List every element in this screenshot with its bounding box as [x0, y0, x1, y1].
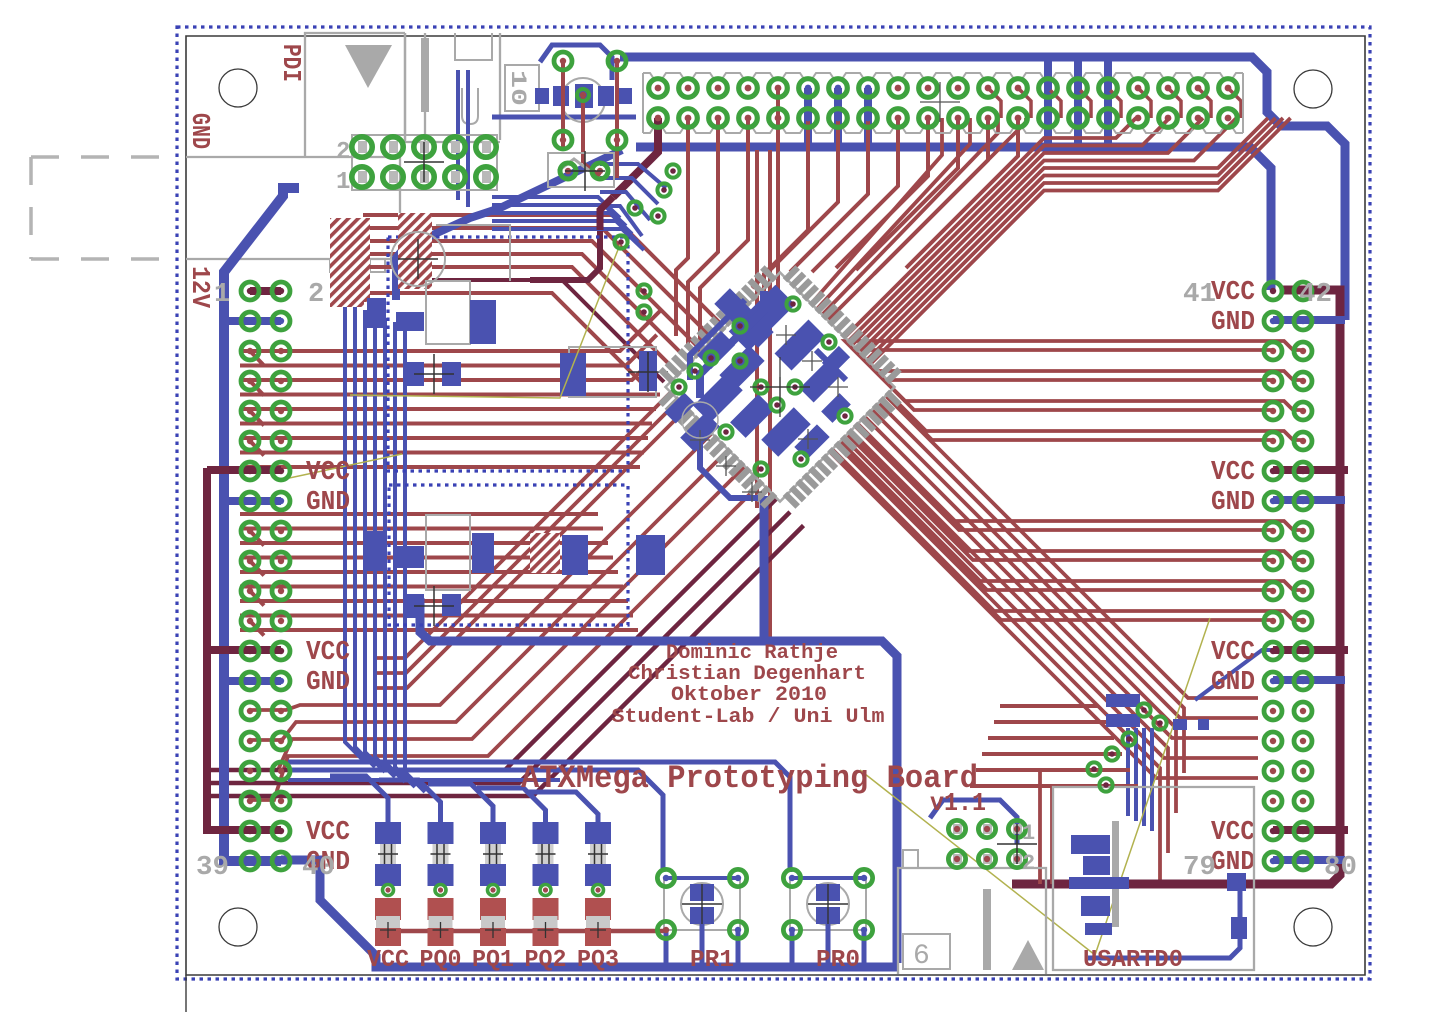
- section2 outline: [426, 515, 470, 590]
- crosshair IC1: [414, 354, 454, 394]
- wire: blue horizontal osc: [492, 115, 636, 120]
- wire: blue GND stubs right: [1273, 316, 1345, 324]
- wire bundle: left horizontals group A: [240, 310, 661, 351]
- jack feet: [330, 259, 385, 272]
- wire: button S1 PR1 links: [666, 876, 738, 880]
- svg-text:PQ1: PQ1: [472, 947, 514, 974]
- svg-text:GND: GND: [1211, 668, 1255, 698]
- X3 inner bar: [983, 889, 991, 970]
- svg-text:USARTD0: USARTD0: [1083, 947, 1183, 974]
- wire: blue verticals from USB: [456, 70, 460, 200]
- wire: red bus under LEDs: [388, 929, 664, 934]
- svg-text:GND: GND: [306, 488, 350, 518]
- IC1 pads blue: [367, 298, 386, 328]
- svg-text:40: 40: [302, 853, 335, 883]
- airwire yellow 2: [280, 454, 402, 480]
- wire: blue route JP2: [930, 800, 1017, 844]
- crosshair JP2: [997, 824, 1037, 864]
- USB connector X3 outline: [898, 868, 1046, 974]
- crosshair jumper: [565, 151, 605, 191]
- button S2 PR0 contacts: [816, 884, 840, 901]
- wire bundle: left pad jogs group A: [250, 351, 264, 366]
- wire bundle: NW horizontals becoming diagonals to chip: [363, 215, 722, 325]
- LED LED1: [375, 898, 401, 920]
- wire: blue mid lines to buttons area: [288, 762, 790, 872]
- X3 tab: [903, 850, 918, 868]
- wire: crystal stubs red: [561, 61, 565, 150]
- svg-text:2: 2: [336, 139, 350, 166]
- svg-text:VCC: VCC: [1211, 458, 1255, 488]
- svg-text:79: 79: [1183, 853, 1216, 883]
- button S1 PR1 cap: [681, 883, 723, 925]
- svg-text:Dominic Rathje: Dominic Rathje: [666, 642, 838, 665]
- svg-text:VCC: VCC: [306, 638, 350, 668]
- pin header SV1 pads: [649, 79, 668, 98]
- wire bundle: NE arm inner diagonals: [827, 118, 1026, 321]
- button S1 PR1 pads: [657, 869, 674, 886]
- wire: blue USARTD0 trace: [1088, 890, 1240, 958]
- LED LED3: [480, 898, 506, 920]
- microcontroller U1 outline: [665, 272, 894, 501]
- USB connector X2 silkscreen: [405, 33, 500, 142]
- svg-text:GND: GND: [1211, 488, 1255, 518]
- X4 inner bar: [1112, 821, 1119, 927]
- wire: blue corner traces to via cluster: [600, 164, 666, 188]
- wire: blue GND row stubs left: [224, 317, 281, 325]
- wire: red verticals to maroon bus: [1038, 770, 1042, 884]
- pin header JP1 outline: [352, 135, 497, 190]
- LED LED2: [428, 898, 454, 920]
- pin header JP2 (2x3): [953, 824, 962, 834]
- svg-text:1: 1: [1022, 821, 1035, 846]
- FTDI blue parts: [1071, 835, 1110, 854]
- svg-text:12V: 12V: [185, 266, 215, 308]
- wire bundle: blue verticals USART cluster: [1126, 728, 1130, 816]
- crystal Q1 circle: [561, 78, 605, 122]
- wire bundle: SW diagonal arm maroon tails: [209, 499, 777, 771]
- pin header SV2 (left 2x20): [241, 282, 259, 300]
- svg-text:Oktober 2010: Oktober 2010: [671, 684, 827, 707]
- mounting hole H2: [1294, 70, 1332, 108]
- resistor R4: [533, 822, 559, 844]
- hatched pad lower: [530, 533, 560, 573]
- X2 inner bar: [421, 38, 429, 112]
- wire: GND bus above top header (blue): [620, 57, 1345, 320]
- svg-text:Student-Lab / Uni Ulm: Student-Lab / Uni Ulm: [612, 706, 885, 729]
- wire: row1 stub left: [250, 287, 281, 295]
- wire bundle: SW diagonal arm to left pads: [250, 434, 712, 711]
- wire bundle: left horizontals group B: [240, 512, 598, 516]
- USART connector X4 outline: [1053, 787, 1254, 970]
- svg-text:VCC: VCC: [1211, 638, 1255, 668]
- svg-text:PR1: PR1: [690, 947, 734, 974]
- crystal Q1 blue outline: [540, 45, 612, 80]
- wire bundle: left pad jogs group B: [250, 531, 264, 546]
- svg-text:GND: GND: [185, 113, 215, 149]
- section2 blue pads: [363, 531, 385, 571]
- svg-text:2: 2: [1022, 851, 1035, 876]
- U1 vias: [786, 297, 799, 310]
- wire: red vertical pair through chip: [755, 150, 759, 508]
- wire bundle: header right hooks: [988, 88, 1001, 118]
- jumper pads: [560, 163, 576, 179]
- U1 blue traces inside: [700, 291, 764, 398]
- crystal pads: [554, 52, 572, 70]
- LED LED5: [585, 898, 611, 920]
- svg-text:PR0: PR0: [816, 947, 860, 974]
- wire bundle: blue diagonals to resistors: [330, 776, 388, 824]
- via R5-LED5: [593, 885, 604, 896]
- svg-text:10: 10: [505, 70, 530, 106]
- dashed box 1: [388, 237, 628, 471]
- mounting hole H3: [219, 908, 257, 946]
- svg-text:v1.1: v1.1: [930, 788, 986, 818]
- electrolytic cap C1 hatched: [330, 218, 370, 302]
- U1 inner blue parts: [729, 285, 795, 351]
- svg-text:PDI: PDI: [276, 44, 306, 82]
- wire: maroon VCC stubs right: [1273, 466, 1348, 474]
- button S1 PR1 contacts: [690, 884, 714, 901]
- jumper gray mark: [558, 159, 590, 171]
- X3 box 6: [903, 934, 950, 969]
- crosshair JP1: [404, 142, 444, 182]
- button S1 PR1 outline: [664, 878, 740, 930]
- X3 triangle: [1012, 940, 1044, 970]
- wire bundle: red horizontals into cluster: [1000, 704, 1098, 708]
- resistor R3: [480, 822, 506, 844]
- wire bundle: right horizontals group B (chip to right pads): [856, 425, 1304, 531]
- via R2-LED2: [435, 885, 446, 896]
- svg-text:VCC: VCC: [1211, 278, 1255, 308]
- wire: bottom blue GND bus: [281, 860, 897, 967]
- wire bundle: header left columns down-fan (red): [613, 118, 658, 197]
- U1 pin pads gray: [643, 250, 917, 524]
- svg-text:1: 1: [214, 280, 230, 310]
- via cluster NW of chip: [666, 164, 679, 177]
- JP1 pads: [358, 141, 367, 153]
- airwire yellow 3: [860, 618, 1210, 955]
- wire: 12V blue feed from jack: [224, 188, 299, 861]
- button S2 PR0 cap: [807, 883, 849, 925]
- X2 tab: [455, 33, 492, 60]
- C1 circle: [391, 232, 445, 286]
- wire: GND bus below top header (blue): [636, 147, 1271, 290]
- wire: blue header stubs: [1044, 57, 1052, 147]
- board outline (dimension): [186, 36, 1365, 975]
- button S2 PR0 outline: [790, 878, 866, 930]
- wire: GND thick blue lower path: [420, 598, 897, 963]
- svg-text:6: 6: [913, 941, 930, 972]
- svg-text:41: 41: [1183, 280, 1216, 310]
- wire: thick blue from chip bottom: [760, 496, 769, 641]
- svg-text:ATXMega Prototyping Board: ATXMega Prototyping Board: [521, 760, 978, 797]
- button S2 PR0 pads: [783, 869, 800, 886]
- U1 crosshatch: [776, 325, 796, 345]
- svg-text:VCC: VCC: [1211, 818, 1255, 848]
- crosshair SV1: [920, 82, 960, 122]
- box label 10: [505, 65, 539, 111]
- wire: blue diagonal to VCC right: [1195, 650, 1273, 700]
- svg-text:PQ0: PQ0: [420, 947, 462, 974]
- wire: maroon VCC bus left: [207, 468, 281, 830]
- wire: maroon VCC bus right: [1012, 290, 1340, 884]
- wire bundle: SE diagonal arm to bottom-right: [885, 395, 1258, 698]
- svg-text:1: 1: [336, 169, 350, 196]
- wire bundle: blue thin bundle to regulator: [492, 197, 620, 218]
- svg-text:39: 39: [196, 853, 229, 883]
- svg-text:VCC: VCC: [306, 818, 350, 848]
- resistor R1: [375, 822, 401, 844]
- via R4-LED4: [540, 885, 551, 896]
- svg-text:GND: GND: [1211, 308, 1255, 338]
- wire bundle: NE diagonal arm: [844, 118, 1136, 338]
- svg-text:GND: GND: [306, 668, 350, 698]
- svg-text:VCC: VCC: [367, 947, 409, 974]
- wire: maroon VCC stubs left: [207, 466, 281, 474]
- wire bundle: right horizontals group A (chip to right pads): [845, 341, 1303, 388]
- crystal caps blue: [535, 88, 549, 104]
- mounting hole H1: [219, 69, 257, 107]
- resistor R2: [428, 822, 454, 844]
- LED LED4: [533, 898, 559, 920]
- crosshair U1: [750, 357, 810, 417]
- vias bottom right cluster: [1137, 703, 1150, 716]
- power jack triangle: [345, 45, 392, 88]
- dimension tick bottom-left: [185, 975, 187, 1012]
- wire: GND blue right-edge joins: [1284, 316, 1345, 324]
- dashed box 2: [389, 485, 628, 625]
- crosshair C1: [398, 239, 438, 279]
- via R1-LED1: [383, 885, 394, 896]
- pin header SV3 (right 2x20): [1264, 282, 1282, 300]
- small blue caps cluster: [1106, 694, 1140, 707]
- wire: maroon diag from header col0: [600, 197, 613, 230]
- svg-text:PQ2: PQ2: [525, 947, 567, 974]
- svg-text:PQ3: PQ3: [577, 947, 619, 974]
- cap C2 outline+pads: [569, 347, 656, 397]
- wire: thick blue from osc area to regulator: [396, 150, 622, 300]
- svg-text:2: 2: [308, 280, 324, 310]
- off-board dashed connector outline: [31, 157, 172, 259]
- power jack X1 silkscreen: [186, 33, 405, 259]
- svg-text:Christian Degenhart: Christian Degenhart: [628, 663, 866, 686]
- mounting hole H4: [1294, 908, 1332, 946]
- regulator IC1 outline: [426, 225, 510, 344]
- svg-text:VCC: VCC: [306, 458, 350, 488]
- airwire yellow 1: [350, 242, 621, 398]
- wire bundle: blue verticals left-middle: [345, 302, 365, 762]
- jumper box: [548, 153, 614, 187]
- wire bundle: SW inner diagonals: [377, 409, 687, 689]
- svg-text:42: 42: [1299, 280, 1332, 310]
- resistor R5: [585, 822, 611, 844]
- board dotted frame: [177, 27, 1370, 979]
- wire: maroon link from header col0 to regulator rows: [530, 228, 600, 280]
- X2 shell detail: [462, 88, 478, 124]
- via R3-LED3: [488, 885, 499, 896]
- wire: button S2 PR0 links: [792, 876, 864, 880]
- svg-text:80: 80: [1324, 853, 1357, 883]
- U1 circle mark: [682, 402, 718, 438]
- pin header SV1 silkscreen: [643, 73, 1243, 79]
